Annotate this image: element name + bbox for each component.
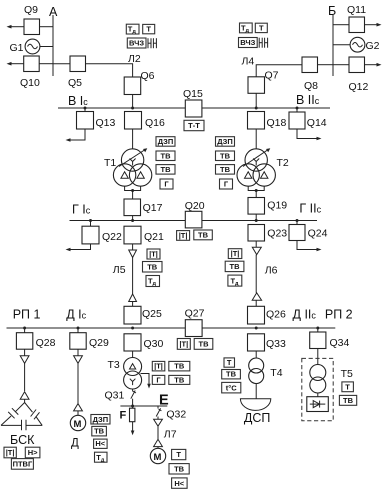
svg-text:G2: G2 xyxy=(366,40,380,52)
svg-text:Q31: Q31 xyxy=(105,390,125,402)
svg-text:Т5: Т5 xyxy=(341,368,353,380)
svg-text:Q28: Q28 xyxy=(36,337,56,349)
svg-text:Д Iс: Д Iс xyxy=(66,308,86,322)
svg-text:Q10: Q10 xyxy=(20,77,40,89)
svg-text:Q5: Q5 xyxy=(68,77,82,89)
svg-text:Q29: Q29 xyxy=(89,337,109,349)
svg-text:ТВ: ТВ xyxy=(220,151,231,160)
svg-text:Q22: Q22 xyxy=(102,231,122,243)
svg-text:Q16: Q16 xyxy=(145,117,165,129)
svg-text:Т: Т xyxy=(176,450,181,459)
svg-text:Q24: Q24 xyxy=(308,228,328,240)
svg-text:|Т|: |Т| xyxy=(154,362,163,371)
svg-text:ТВ: ТВ xyxy=(147,263,158,272)
svg-text:ДСП: ДСП xyxy=(244,411,270,425)
svg-text:Q13: Q13 xyxy=(96,117,116,129)
svg-text:Q11: Q11 xyxy=(347,4,366,16)
svg-text:Д: Д xyxy=(71,438,79,450)
svg-text:Л5: Л5 xyxy=(113,264,126,276)
svg-text:Q20: Q20 xyxy=(185,200,205,212)
svg-text:Q6: Q6 xyxy=(141,70,155,82)
svg-text:Б: Б xyxy=(328,4,336,18)
svg-text:Q30: Q30 xyxy=(144,338,164,350)
svg-text:Т3: Т3 xyxy=(108,359,120,371)
svg-text:Л6: Л6 xyxy=(265,265,278,277)
svg-text:|Т|: |Т| xyxy=(179,340,188,349)
svg-text:ТВ: ТВ xyxy=(94,427,105,436)
svg-text:В Iс: В Iс xyxy=(68,94,88,108)
svg-text:|Т|: |Т| xyxy=(149,250,158,259)
svg-text:ТВ: ТВ xyxy=(161,165,172,174)
svg-text:РП 1: РП 1 xyxy=(13,308,41,322)
svg-text:Т: Т xyxy=(345,382,350,391)
svg-text:Q26: Q26 xyxy=(266,309,286,321)
svg-text:Q17: Q17 xyxy=(143,202,163,214)
svg-text:Q25: Q25 xyxy=(142,308,162,320)
svg-text:ТВ: ТВ xyxy=(174,375,185,384)
svg-text:Н>: Н> xyxy=(28,448,38,457)
svg-text:Q9: Q9 xyxy=(24,4,38,16)
svg-text:ДЗП: ДЗП xyxy=(158,137,174,146)
svg-text:Л4: Л4 xyxy=(242,56,255,68)
svg-text:Т: Т xyxy=(146,25,151,34)
svg-text:ТВ: ТВ xyxy=(343,396,354,405)
svg-text:ТВ: ТВ xyxy=(198,231,209,240)
svg-text:Q32: Q32 xyxy=(166,409,186,421)
svg-text:В IIс: В IIс xyxy=(296,93,320,107)
svg-text:Л2: Л2 xyxy=(128,53,141,65)
svg-text:Q33: Q33 xyxy=(266,338,286,350)
svg-text:ТВ: ТВ xyxy=(220,165,231,174)
svg-text:Г: Г xyxy=(164,180,169,189)
svg-text:ДЗП: ДЗП xyxy=(217,137,233,146)
svg-text:БСК: БСК xyxy=(10,433,35,447)
svg-text:Q34: Q34 xyxy=(330,337,350,349)
svg-text:Г: Г xyxy=(156,375,161,384)
svg-text:Q8: Q8 xyxy=(304,80,318,92)
svg-text:А: А xyxy=(49,5,58,19)
svg-text:Т4: Т4 xyxy=(270,367,282,379)
svg-text:ВЧЗ: ВЧЗ xyxy=(240,38,255,47)
svg-text:ТВ: ТВ xyxy=(199,340,210,349)
svg-text:Л7: Л7 xyxy=(164,429,177,441)
svg-text:Q18: Q18 xyxy=(267,117,287,129)
svg-text:|Т|: |Т| xyxy=(231,249,240,258)
svg-text:Д IIс: Д IIс xyxy=(293,308,317,322)
svg-text:Q12: Q12 xyxy=(349,81,369,93)
svg-text:Г Iс: Г Iс xyxy=(72,203,91,217)
svg-text:Т2: Т2 xyxy=(277,157,289,169)
svg-text:|Т|: |Т| xyxy=(6,448,15,457)
svg-text:Q19: Q19 xyxy=(267,200,287,212)
svg-text:ДЗП: ДЗП xyxy=(93,415,109,424)
svg-text:t°С: t°С xyxy=(226,383,237,392)
svg-text:Г IIс: Г IIс xyxy=(299,202,321,216)
svg-text:Q21: Q21 xyxy=(144,231,164,243)
svg-text:F: F xyxy=(120,410,127,422)
svg-text:Г: Г xyxy=(224,180,229,189)
svg-text:Т-Т: Т-Т xyxy=(188,121,200,130)
svg-text:|Т|: |Т| xyxy=(179,231,188,240)
svg-text:Q23: Q23 xyxy=(267,228,287,240)
svg-text:ТВ: ТВ xyxy=(174,465,185,474)
svg-text:ТВ: ТВ xyxy=(226,370,237,379)
svg-text:Q7: Q7 xyxy=(265,70,279,82)
svg-text:G1: G1 xyxy=(10,42,24,54)
svg-text:Т1: Т1 xyxy=(104,157,116,169)
svg-text:Q15: Q15 xyxy=(183,88,203,100)
svg-text:РП 2: РП 2 xyxy=(325,308,353,322)
svg-text:М: М xyxy=(74,419,82,430)
svg-text:Т: Т xyxy=(259,24,264,33)
svg-text:ТВ: ТВ xyxy=(230,262,241,271)
svg-text:ТВ: ТВ xyxy=(174,362,185,371)
svg-text:Н<: Н< xyxy=(174,479,184,488)
svg-text:Q14: Q14 xyxy=(307,117,327,129)
svg-text:ВЧЗ: ВЧЗ xyxy=(129,39,144,48)
svg-text:ПТВГ: ПТВГ xyxy=(13,460,33,469)
svg-text:Q27: Q27 xyxy=(185,308,205,320)
svg-text:Т: Т xyxy=(227,358,232,367)
svg-text:Н<: Н< xyxy=(95,439,105,448)
svg-text:М: М xyxy=(154,452,162,463)
svg-text:ТВ: ТВ xyxy=(161,151,172,160)
